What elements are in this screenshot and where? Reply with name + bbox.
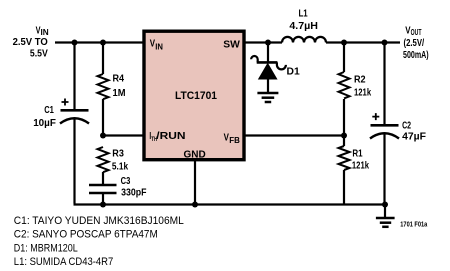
svg-text:IN: IN (155, 42, 163, 51)
wire R4 bottom lead to ITH node (102, 99, 104, 136)
svg-text:C1: C1 (44, 104, 54, 116)
wire output ground stub (384, 205, 386, 218)
svg-text:GND: GND (184, 149, 207, 161)
capacitor C1 plates (60, 99, 89, 124)
svg-text:L1: SUMIDA CD43-4R7: L1: SUMIDA CD43-4R7 (14, 256, 114, 268)
svg-text:C1: TAIYO YUDEN JMK316BJ106ML: C1: TAIYO YUDEN JMK316BJ106ML (14, 215, 184, 227)
svg-text:10µF: 10µF (33, 117, 56, 129)
junction node VOUT-C2 (382, 40, 388, 46)
svg-text:5.1k: 5.1k (112, 161, 128, 173)
svg-text:47µF: 47µF (402, 131, 426, 143)
wire R2 top lead (343, 43, 345, 73)
svg-text:R4: R4 (113, 72, 125, 84)
wire R1 leads (343, 136, 345, 205)
wire D1 branch from SW node (267, 43, 269, 62)
wire C3 bottom lead (102, 193, 104, 205)
junction node C2-ground rail (382, 202, 388, 208)
junction node VOUT-R2 (341, 40, 347, 46)
svg-text:D1: D1 (287, 65, 300, 77)
wire R3 bottom lead to C3 (102, 172, 104, 184)
svg-text:/RUN: /RUN (156, 130, 185, 142)
svg-text:OUT: OUT (411, 28, 422, 37)
svg-text:2.5V TO: 2.5V TO (13, 36, 48, 48)
svg-text:1M: 1M (113, 87, 126, 99)
svg-text:SW: SW (223, 38, 240, 50)
wire C1 bottom to ground rail (73, 119, 75, 204)
resistor R3 zigzag (98, 147, 109, 172)
capacitor C2 plates (370, 113, 399, 138)
wire SW segment IC to coil (245, 41, 282, 43)
ground symbol at output rail (376, 218, 395, 227)
svg-text:V: V (150, 38, 155, 50)
svg-text:LTC1701: LTC1701 (175, 90, 217, 102)
svg-text:5.5V: 5.5V (30, 48, 48, 60)
svg-text:330pF: 330pF (121, 186, 147, 198)
wire coil to VOUT terminal (326, 41, 400, 43)
svg-text:500mA): 500mA) (403, 49, 429, 61)
svg-text:D1: MBRM120L: D1: MBRM120L (14, 242, 78, 254)
svg-text:R1: R1 (352, 148, 362, 160)
junction node VIN-R4 (100, 40, 106, 46)
resistor R4 zigzag (98, 74, 109, 99)
svg-text:C2: C2 (402, 119, 411, 131)
wire ground rail bottom (74, 203, 386, 205)
wire R4 top lead (102, 43, 104, 75)
wire VFB from IC (245, 134, 344, 136)
wire ITH/RUN to IC (103, 134, 143, 136)
junction node VFB-R2-R1 (341, 133, 347, 139)
junction node C3-ground rail (100, 202, 106, 208)
wire IC GND pin down (194, 161, 196, 205)
wire D1 anode to ground (267, 79, 269, 93)
junction node SW-D1 (265, 40, 271, 46)
svg-text:121k: 121k (352, 159, 369, 171)
junction node ITH-R4-R3 (100, 133, 106, 139)
capacitor C3 plates (89, 185, 117, 193)
svg-text:V: V (224, 132, 229, 144)
junction node VIN-C1 (72, 40, 78, 46)
wire R2 bottom lead to VFB node (343, 99, 345, 136)
wire VIN input rail (55, 41, 143, 43)
svg-text:FB: FB (229, 136, 240, 145)
svg-text:L1: L1 (299, 8, 308, 20)
svg-text:R3: R3 (112, 147, 124, 159)
svg-text:1701 F01a: 1701 F01a (400, 222, 427, 229)
junction node GND pin-ground rail (192, 202, 198, 208)
wire C2 branch down (383, 43, 385, 205)
ground symbol at D1 (257, 93, 278, 102)
resistor R2 zigzag (339, 72, 350, 98)
IC U1 LTC1701 body (144, 31, 244, 160)
svg-text:121k: 121k (354, 86, 371, 98)
wire C1 branch down (73, 43, 75, 110)
inductor L1 coil (282, 37, 326, 43)
svg-text:(2.5V/: (2.5V/ (404, 37, 425, 49)
svg-text:4.7µH: 4.7µH (289, 20, 318, 32)
svg-text:C2: SANYO POSCAP 6TPA47M: C2: SANYO POSCAP 6TPA47M (14, 229, 158, 241)
diode D1 schottky (251, 56, 286, 79)
parts list note (14, 215, 184, 268)
svg-text:R2: R2 (354, 73, 366, 85)
resistor R1 zigzag (339, 146, 350, 170)
